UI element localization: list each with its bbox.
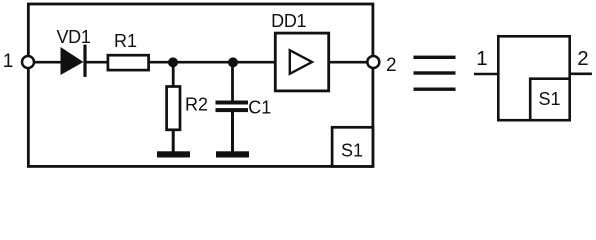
junction node dot B [228,57,238,67]
wire R1 to DD1 [150,61,277,64]
wire DD1 to node 2 [329,61,369,64]
ground bar (C1) [216,151,249,157]
diode VD1 [61,45,86,77]
S1 designator box (main) [332,127,373,166]
wire input: circle to diode [33,61,62,64]
wire node B down to C1 [231,62,234,101]
ground bar (R2) [157,151,190,157]
capacitor C1 [216,101,249,113]
input wire (equivalent block) [474,73,498,76]
equivalence symbol [414,56,456,91]
svg-text:1: 1 [3,51,14,72]
svg-text:C1: C1 [248,98,271,118]
wire C1 to ground [231,112,234,152]
svg-text:DD1: DD1 [271,11,306,31]
wire node A down to R2 [172,62,175,87]
op-amp / buffer DD1 box [275,33,328,91]
resistor R2 [167,87,180,130]
junction node dot A [168,57,178,67]
S1 designator box (equivalent block) [530,79,570,121]
node 2 terminal circle [367,56,379,68]
svg-text:1: 1 [476,47,487,70]
svg-text:R1: R1 [114,31,137,51]
output wire (equivalent block) [570,73,592,76]
svg-text:R2: R2 [185,95,208,115]
svg-text:2: 2 [577,47,588,70]
wire R2 to ground [172,130,175,152]
svg-text:S1: S1 [341,141,363,161]
equivalent block outer box [498,36,569,120]
node 1 terminal circle [22,56,34,68]
svg-text:2: 2 [386,55,397,76]
resistor R1 [108,55,149,70]
svg-text:VD1: VD1 [56,27,90,47]
svg-text:S1: S1 [538,89,560,109]
buffer triangle inside DD1 [290,50,312,74]
main circuit box outline [28,4,373,166]
wire diode to R1 [84,61,108,64]
